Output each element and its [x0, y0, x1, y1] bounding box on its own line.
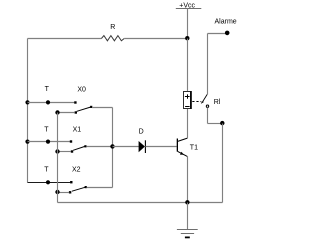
node ground junction [185, 200, 189, 204]
svg-text:T: T [44, 166, 49, 173]
svg-text:X0: X0 [77, 86, 86, 93]
wire ground bottom horizontal [58, 202, 223, 204]
svg-text:D: D [139, 129, 144, 136]
wire X0 output to vertical [92, 107, 113, 109]
wire top horizontal left of resistor [28, 38, 102, 40]
terminal T dot row X1 [44, 126, 50, 143]
wire +Vcc stem to top junction [187, 9, 189, 39]
switch X2 [69, 167, 87, 194]
wire left bus vertical [27, 39, 29, 183]
wire collector up to relay coil [187, 109, 189, 139]
wire contact bottom to right bus [208, 123, 223, 125]
terminal Alarme [208, 19, 237, 36]
wire top junction down to relay coil [187, 39, 189, 92]
wire X0 top line [28, 102, 75, 104]
node outputs junction [110, 144, 114, 148]
svg-text:T: T [45, 86, 50, 93]
svg-text:R: R [110, 24, 115, 31]
node X1 bottom [55, 149, 59, 153]
wire right bus down [222, 124, 224, 203]
wire X1 bottom line [58, 151, 72, 153]
relay RI coil [184, 91, 192, 109]
svg-text:Rl: Rl [214, 99, 221, 106]
node bus-X1 [25, 140, 29, 144]
svg-text:Alarme: Alarme [215, 19, 237, 26]
wire junction to diode [113, 146, 139, 148]
power +Vcc [176, 2, 202, 9]
wire X2 bottom line [58, 192, 70, 194]
diode D [139, 129, 146, 153]
wire diode to base [145, 146, 176, 148]
svg-text:T: T [44, 126, 49, 133]
transistor T1 [177, 138, 198, 156]
wire emitter down to ground junction [187, 156, 189, 202]
svg-text:T1: T1 [190, 145, 198, 152]
terminal T dot row X0 [45, 86, 51, 105]
wire alarme terminal down to contact [207, 34, 209, 95]
wire X1 output [86, 146, 112, 148]
switch X0 [74, 86, 92, 113]
svg-text:X2: X2 [72, 167, 81, 174]
svg-text:X1: X1 [73, 126, 82, 133]
terminal T dot row X2 [44, 166, 50, 184]
wire X2 top line [28, 182, 71, 184]
resistor R [101, 24, 124, 41]
node X0 bottom [55, 110, 59, 114]
wire X1 top line [28, 141, 71, 143]
wire bottom-contact chain vertical [57, 113, 59, 203]
wire X2 output [87, 187, 113, 189]
ground [177, 203, 198, 238]
switch X1 [70, 126, 87, 152]
node bus-X0 [25, 100, 29, 104]
wire contact bottom down [207, 107, 209, 123]
wire X0 bottom line [58, 112, 75, 114]
svg-text:+Vcc: +Vcc [179, 2, 195, 9]
wire outputs vertical bus [112, 108, 114, 188]
wire resistor to top junction [124, 38, 187, 40]
relay RI contact [192, 94, 221, 107]
node X2 bottom [55, 190, 59, 194]
node top junction [185, 36, 189, 40]
node right bus top [220, 121, 224, 125]
